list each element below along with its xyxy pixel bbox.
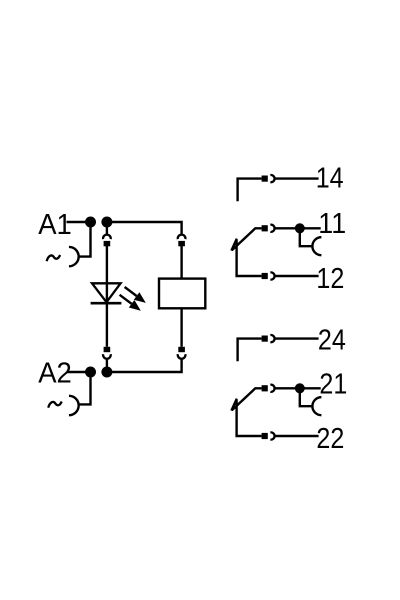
wire 22 branch — [237, 400, 262, 436]
svg-text:A1: A1 — [38, 209, 72, 241]
node A2 junction dot 2 — [101, 367, 112, 378]
svg-text:14: 14 — [316, 163, 344, 195]
plug socket (LED branch bottom) — [103, 354, 111, 359]
svg-text:A2: A2 — [38, 357, 72, 389]
node A1 junction dot 2 — [101, 217, 112, 228]
wire 14 corner — [238, 179, 262, 202]
wire A2 to junction — [67, 371, 91, 373]
plug pin 24 — [262, 336, 268, 342]
plug pin (coil branch top) — [178, 241, 185, 246]
svg-text:11: 11 — [318, 208, 346, 240]
plug pin 21 — [262, 385, 268, 391]
plug pin (LED branch bottom) — [104, 347, 111, 352]
terminal socket A2 — [69, 396, 79, 415]
wire 21 to label — [300, 387, 321, 389]
plug pin (LED branch top) — [104, 241, 111, 246]
plug pin 11 — [262, 225, 268, 231]
plug pin (coil branch bottom) — [178, 347, 185, 352]
wire A1 to junction — [67, 221, 91, 223]
wire socket stem to dot — [106, 359, 108, 369]
wire 21 to node — [275, 387, 300, 389]
node A1 junction dot 1 — [85, 217, 96, 228]
wire top rail A1 to coil branch — [107, 222, 182, 235]
svg-text:22: 22 — [316, 423, 344, 455]
plug pin 14 — [262, 176, 268, 182]
wire LED branch vertical — [106, 246, 108, 347]
AC symbol ~ at A1 — [47, 255, 61, 261]
svg-text:12: 12 — [316, 263, 344, 295]
LED D1 triangle — [92, 283, 121, 302]
plug socket 11 — [270, 225, 274, 232]
wire coil branch to coil — [180, 246, 182, 279]
plug socket (LED branch, from A1 rail) — [103, 235, 111, 240]
contact lever K1 pole 21 — [232, 388, 262, 410]
plug pin 22 — [262, 433, 268, 439]
wire 12 to label — [275, 275, 319, 277]
plug pin 12 — [262, 273, 268, 279]
svg-text:21: 21 — [319, 369, 347, 401]
LED D1 cathode bar — [91, 302, 122, 305]
wire 11 to label — [300, 227, 321, 229]
wire 12 branch — [237, 240, 262, 276]
plug socket 12 — [270, 272, 274, 279]
wire coil bottom — [180, 308, 182, 347]
wire 14 to label — [275, 177, 319, 179]
contact NC tick 22 — [231, 399, 236, 411]
terminal socket A1 — [69, 247, 79, 266]
contact lever K1 pole 11 — [232, 228, 262, 250]
wire A1 terminal branch — [79, 222, 90, 257]
plug socket (coil branch bottom) — [178, 354, 186, 359]
wire 11 to node — [275, 227, 300, 229]
LED arrow 2 — [120, 295, 141, 311]
node 21 dot — [295, 383, 305, 393]
wire 24 to label — [275, 337, 319, 339]
node 11 dot — [295, 223, 305, 233]
relay coil K1 — [159, 279, 205, 309]
contact NC tick 12 — [231, 239, 236, 251]
node A2 junction dot 1 — [85, 367, 96, 378]
plug socket (coil branch, from A1 rail) — [178, 235, 186, 240]
plug socket 24 — [270, 335, 274, 342]
terminal socket 11 — [312, 237, 321, 255]
wire dot2 down to socket — [106, 222, 108, 235]
wire socket stem to A2 rail — [107, 359, 182, 373]
svg-text:24: 24 — [318, 325, 346, 357]
wire 21 terminal branch — [300, 388, 313, 406]
plug socket 22 — [270, 432, 274, 439]
plug socket 21 — [270, 385, 274, 392]
LED arrow 1 — [125, 287, 146, 303]
wire 22 to label — [275, 435, 319, 437]
plug socket 14 — [270, 175, 274, 182]
wire 24 corner — [238, 339, 262, 362]
terminal socket 21 — [312, 397, 321, 415]
wire A2 terminal branch — [79, 372, 90, 404]
wire 11 terminal branch — [300, 228, 313, 246]
AC symbol ~ at A2 — [48, 402, 62, 408]
